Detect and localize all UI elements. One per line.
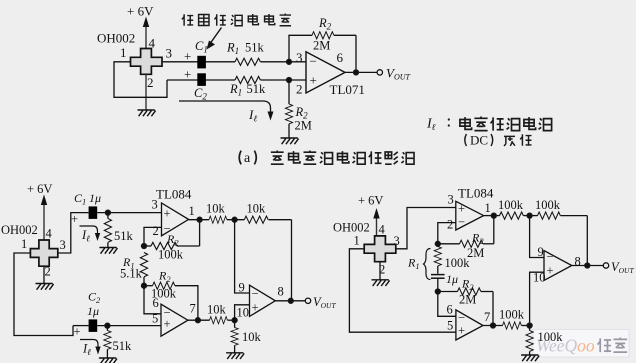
op-amp B (BL) bbox=[152, 302, 196, 337]
resistor R1 row2 51k bbox=[235, 76, 260, 83]
svg-text:100k: 100k bbox=[538, 330, 564, 344]
svg-text:4: 4 bbox=[149, 36, 156, 51]
svg-text:10k: 10k bbox=[242, 330, 262, 344]
wire pin3 to C1 row BL bbox=[58, 213, 89, 253]
svg-text:+: + bbox=[458, 324, 465, 338]
legend Il : capacitor leakage (DC) component bbox=[426, 117, 552, 148]
svg-text:DC: DC bbox=[470, 133, 488, 148]
svg-text:TL084: TL084 bbox=[156, 187, 192, 202]
svg-text:+: + bbox=[547, 264, 554, 278]
note text: use low-leakage capacitors bbox=[182, 14, 291, 26]
ground (BR 100k) bbox=[521, 355, 539, 361]
svg-text:C1: C1 bbox=[74, 191, 86, 207]
svg-text:Iℓ: Iℓ bbox=[81, 228, 90, 244]
caption (a) effect of capacitor leakage current bbox=[239, 151, 414, 167]
svg-text:+: + bbox=[458, 202, 465, 216]
power +6V (top) bbox=[127, 4, 154, 49]
svg-text:51k: 51k bbox=[114, 229, 134, 243]
ground (BL 51k lower) bbox=[99, 358, 117, 363]
svg-text:VOUT: VOUT bbox=[611, 260, 634, 275]
wire pin9 BL bbox=[235, 220, 250, 295]
svg-text:a: a bbox=[244, 151, 251, 166]
capacitor C1 (top) bbox=[197, 56, 206, 69]
wire pin1 loop BL bbox=[14, 253, 73, 336]
op-amp A (BR) bbox=[447, 193, 491, 232]
svg-text:+ 6V: + 6V bbox=[358, 194, 383, 208]
op-amp B (BR) bbox=[447, 310, 490, 340]
ground (BL 51k upper) bbox=[99, 248, 117, 254]
svg-text:10k: 10k bbox=[247, 202, 267, 216]
resistor 10k to ground (BL) bbox=[231, 320, 262, 353]
svg-text:51k: 51k bbox=[247, 82, 267, 96]
output row op-amp A BR with 100k,100k bbox=[484, 198, 588, 219]
svg-text:R2: R2 bbox=[166, 232, 179, 248]
wire pin6 BR bbox=[438, 292, 456, 317]
node2 BL bbox=[141, 283, 146, 288]
svg-text:100k: 100k bbox=[445, 256, 471, 270]
svg-text:4: 4 bbox=[379, 223, 386, 237]
svg-text:8: 8 bbox=[278, 285, 284, 299]
output row op-amp B BR with 100k bbox=[483, 308, 532, 330]
svg-text:+: + bbox=[164, 317, 171, 331]
svg-text:+ 6V: + 6V bbox=[27, 182, 52, 196]
feedback resistor R2 2M (BR B) bbox=[438, 277, 493, 326]
svg-text:6: 6 bbox=[447, 303, 453, 317]
wire pin2 down bbox=[145, 74, 147, 110]
svg-text:−: − bbox=[458, 311, 465, 325]
svg-text:2: 2 bbox=[147, 75, 154, 90]
svg-text:−: − bbox=[252, 287, 259, 301]
svg-text:2: 2 bbox=[447, 217, 453, 231]
svg-text:OH002: OH002 bbox=[333, 221, 370, 235]
resistor 51k to ground (BL C2) bbox=[104, 326, 132, 358]
svg-text:Iℓ: Iℓ bbox=[248, 107, 257, 124]
ground (top sensor) bbox=[138, 110, 156, 116]
op-amp C (BR) bbox=[533, 250, 581, 285]
svg-text:1μ: 1μ bbox=[89, 191, 101, 205]
svg-text:9: 9 bbox=[538, 245, 544, 259]
svg-text:+: + bbox=[164, 207, 171, 221]
svg-text:+: + bbox=[71, 212, 78, 226]
svg-text:2M: 2M bbox=[459, 293, 476, 307]
svg-text:2: 2 bbox=[153, 224, 159, 238]
node after C1 BL bbox=[105, 210, 110, 215]
output row op-amp A with 10k,10k bbox=[189, 202, 292, 224]
node pin3 junction bbox=[286, 59, 291, 64]
resistor R1 row1 51k bbox=[235, 58, 260, 65]
svg-text:1: 1 bbox=[485, 201, 491, 215]
svg-text:1: 1 bbox=[354, 234, 360, 248]
resistor R1 5.1k (BL) bbox=[120, 253, 148, 286]
svg-text:+: + bbox=[74, 325, 81, 339]
wire pin2 down BL bbox=[43, 266, 45, 283]
wire pin3 to opamp A BR bbox=[396, 208, 456, 249]
feedback resistor R2 2M (top) bbox=[289, 16, 356, 72]
power +6V (BR) bbox=[358, 194, 383, 236]
svg-text:OH002: OH002 bbox=[1, 223, 38, 237]
svg-text:2: 2 bbox=[296, 82, 303, 97]
svg-text:Iℓ: Iℓ bbox=[82, 342, 91, 358]
svg-text:3: 3 bbox=[394, 234, 400, 248]
svg-text:R1: R1 bbox=[407, 256, 420, 272]
ground (BL sensor) bbox=[36, 284, 54, 290]
feedback wire to output (BL C) bbox=[291, 220, 293, 301]
resistor 51k to ground (BL C1) bbox=[104, 213, 133, 248]
svg-text:5: 5 bbox=[447, 319, 453, 333]
ground (BL 10k) bbox=[226, 353, 244, 359]
node pin2 junction bbox=[286, 77, 291, 82]
svg-text:R1: R1 bbox=[226, 41, 239, 57]
svg-text:VOUT: VOUT bbox=[386, 66, 411, 82]
wire pin2 down BR bbox=[379, 262, 381, 280]
svg-text:C2: C2 bbox=[194, 86, 207, 102]
svg-text:1μ: 1μ bbox=[87, 304, 99, 318]
svg-text:R2: R2 bbox=[461, 277, 474, 293]
svg-text:C2: C2 bbox=[88, 290, 101, 306]
svg-text:2: 2 bbox=[45, 265, 51, 279]
wire pin2 loop BL A bbox=[144, 227, 162, 246]
svg-text:2M: 2M bbox=[467, 246, 484, 260]
svg-text:9: 9 bbox=[239, 281, 245, 295]
svg-text:100k: 100k bbox=[498, 198, 524, 212]
op-amp C (BL) bbox=[237, 285, 284, 320]
node top BR bbox=[435, 241, 440, 246]
wire row1 bbox=[162, 61, 235, 63]
op-amp A (BL) bbox=[152, 198, 195, 239]
wire C2 row BL bbox=[73, 325, 89, 327]
note arrow to C1 bbox=[207, 28, 222, 50]
svg-text:3: 3 bbox=[448, 193, 454, 207]
svg-text:R2: R2 bbox=[471, 231, 484, 247]
svg-text:1: 1 bbox=[120, 45, 127, 60]
resistor R2 2M to ground (top) bbox=[285, 80, 311, 138]
hall sensor OH002 (BR) bbox=[333, 221, 396, 262]
feedback wire to output (BR C) bbox=[586, 216, 588, 266]
wire pin10 BR bbox=[530, 272, 544, 325]
svg-text:TL084: TL084 bbox=[458, 186, 494, 201]
svg-text:−: − bbox=[458, 215, 465, 229]
svg-text:1: 1 bbox=[189, 204, 195, 218]
ground (top R2) bbox=[281, 138, 299, 144]
svg-text:−: − bbox=[310, 54, 317, 69]
svg-text:+ 6V: + 6V bbox=[127, 4, 154, 19]
svg-text:100k: 100k bbox=[158, 248, 184, 262]
svg-text:R2: R2 bbox=[158, 269, 171, 285]
output Vout (BR) bbox=[572, 260, 635, 275]
leakage current arrow Il (top) bbox=[179, 101, 274, 124]
op-amp U1 TL071 bbox=[296, 50, 365, 97]
svg-text:6: 6 bbox=[337, 50, 344, 65]
svg-text:100k: 100k bbox=[535, 198, 561, 212]
svg-text:3: 3 bbox=[166, 46, 173, 61]
svg-text:−: − bbox=[547, 250, 554, 264]
wire pin1 to pin5 BR bbox=[349, 249, 456, 332]
leakage arrow Il (BL C1) bbox=[80, 226, 101, 244]
svg-text:4: 4 bbox=[46, 227, 53, 241]
svg-text:3: 3 bbox=[152, 198, 158, 212]
svg-text:10: 10 bbox=[237, 306, 250, 320]
leakage arrow Il (BL C2) bbox=[80, 340, 101, 358]
output row op-amp B with 10k bbox=[188, 303, 237, 324]
feedback resistor R2 100k (BL B) bbox=[144, 269, 198, 321]
wire C1 row to opamp bbox=[97, 212, 161, 214]
svg-text:3: 3 bbox=[60, 238, 66, 252]
svg-text:2M: 2M bbox=[313, 39, 330, 53]
svg-text:1: 1 bbox=[21, 237, 27, 251]
wire row2 bbox=[167, 79, 235, 81]
wire pin10 BL bbox=[235, 305, 250, 320]
svg-text:7: 7 bbox=[484, 310, 490, 324]
svg-text:51k: 51k bbox=[113, 339, 133, 353]
wire pin6 BL bbox=[144, 286, 161, 314]
wire pin2 loop BR A bbox=[438, 223, 456, 244]
capacitor C1 (BL) bbox=[89, 206, 98, 219]
node after C2 BL bbox=[105, 323, 110, 328]
svg-text:OH002: OH002 bbox=[97, 31, 135, 46]
wire pin9 BR bbox=[530, 216, 544, 259]
svg-text:Iℓ: Iℓ bbox=[426, 117, 436, 133]
power +6V (BL) bbox=[27, 182, 52, 241]
feedback resistor R2 2M (BR A) bbox=[438, 216, 494, 260]
svg-text:R2: R2 bbox=[318, 16, 332, 32]
wire pin1 loop bbox=[114, 62, 167, 98]
svg-text:5: 5 bbox=[152, 312, 158, 326]
svg-text:51k: 51k bbox=[245, 41, 265, 55]
svg-text:7: 7 bbox=[190, 302, 196, 316]
node1 BL bbox=[141, 243, 146, 248]
svg-text:VOUT: VOUT bbox=[313, 295, 336, 310]
svg-text:+: + bbox=[310, 73, 317, 88]
resistor 100k to ground (BR) bbox=[526, 326, 563, 356]
svg-text:+: + bbox=[184, 67, 191, 82]
svg-text:1μ: 1μ bbox=[446, 272, 458, 286]
svg-text:10k: 10k bbox=[207, 303, 227, 317]
svg-text:6: 6 bbox=[153, 296, 159, 310]
watermark WeeQoo bbox=[533, 330, 629, 358]
hall sensor OH002 (BL) bbox=[1, 223, 58, 266]
hall sensor OH002 (top) bbox=[97, 31, 162, 75]
svg-text:5.1k: 5.1k bbox=[120, 267, 143, 281]
svg-text:C1: C1 bbox=[195, 39, 208, 55]
output wire Vout (top) bbox=[345, 66, 411, 82]
svg-text:2M: 2M bbox=[295, 119, 312, 133]
node bottom BR bbox=[435, 289, 440, 294]
capacitor C2 (top) bbox=[197, 73, 206, 86]
svg-text:3: 3 bbox=[296, 50, 303, 65]
output Vout (BL) bbox=[275, 295, 336, 310]
svg-text:10k: 10k bbox=[206, 202, 226, 216]
capacitor C2 (BL) bbox=[89, 319, 98, 332]
svg-text:100k: 100k bbox=[499, 308, 525, 322]
feedback resistor R2 100k (BL A) bbox=[144, 220, 200, 262]
ground (BR sensor) bbox=[372, 280, 390, 286]
R1 chain: resistor 100k + capacitor 1u (BR) bbox=[407, 244, 470, 292]
svg-text:+: + bbox=[184, 49, 191, 64]
svg-text:8: 8 bbox=[575, 255, 581, 269]
svg-text:TL071: TL071 bbox=[330, 82, 365, 97]
svg-text:+: + bbox=[252, 301, 259, 315]
